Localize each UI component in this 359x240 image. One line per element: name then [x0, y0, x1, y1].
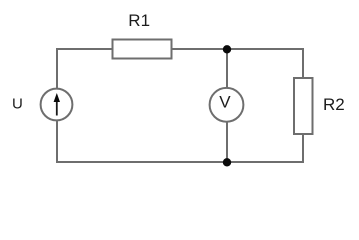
svg-text:R2: R2	[323, 95, 345, 114]
svg-text:V: V	[219, 93, 231, 112]
svg-text:R1: R1	[128, 11, 150, 30]
svg-text:U: U	[12, 96, 23, 113]
